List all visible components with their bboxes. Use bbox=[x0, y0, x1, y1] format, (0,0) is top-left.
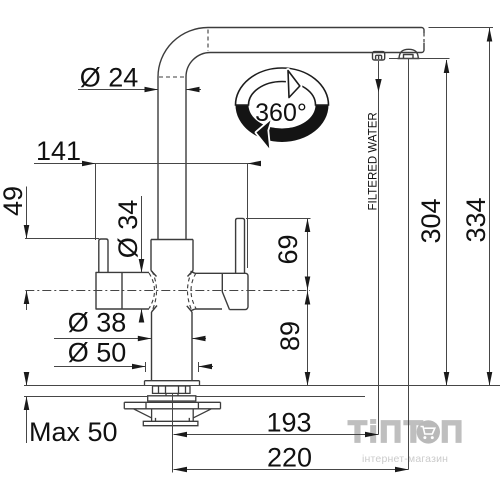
svg-text:П: П bbox=[441, 414, 463, 449]
ext line 141 right bbox=[247, 164, 249, 269]
filtered water outlet dome bbox=[398, 49, 420, 58]
dim 334 line bbox=[489, 28, 491, 386]
center reference line bbox=[172, 394, 174, 473]
ext line 141 left bbox=[95, 164, 97, 241]
svg-text:193: 193 bbox=[266, 408, 311, 438]
lower cylinder bbox=[152, 409, 194, 422]
right handle body bbox=[195, 273, 248, 309]
ext ticks Ø50 bbox=[146, 362, 199, 372]
dim Ø24 lines bbox=[78, 89, 201, 91]
white rotation arrowhead top-right bbox=[288, 71, 300, 98]
svg-text:Ø 24: Ø 24 bbox=[80, 63, 139, 93]
arrows 220 bbox=[174, 467, 188, 473]
dim 220 line bbox=[174, 469, 409, 471]
svg-text:Ø 38: Ø 38 bbox=[68, 308, 127, 338]
body upper collar bbox=[151, 240, 193, 271]
dim 304 line bbox=[446, 60, 448, 386]
handle axis centerline bbox=[25, 290, 310, 292]
ext line 49 top bbox=[25, 238, 99, 240]
mounting base bbox=[124, 381, 220, 426]
svg-text:FILTERED WATER: FILTERED WATER bbox=[368, 112, 380, 210]
arrows 193 bbox=[174, 432, 188, 438]
body lower column bbox=[152, 312, 193, 381]
svg-text:69: 69 bbox=[273, 234, 303, 264]
arrows Ø38 bbox=[138, 336, 152, 342]
svg-text:334: 334 bbox=[461, 197, 491, 242]
dim 69 line bbox=[307, 219, 309, 291]
spout riser pipe bbox=[158, 77, 186, 240]
svg-text:360°: 360° bbox=[255, 99, 307, 127]
ring lower black band bbox=[236, 105, 329, 142]
faucet body tee and handles bbox=[96, 218, 248, 380]
arrows 89 bbox=[305, 291, 311, 305]
svg-text:інтернет-магазин: інтернет-магазин bbox=[362, 453, 448, 465]
ext line 304 top bbox=[389, 58, 450, 60]
svg-text:220: 220 bbox=[267, 443, 312, 473]
shank bbox=[166, 393, 178, 395]
dim 89 line bbox=[307, 291, 309, 386]
svg-text:49: 49 bbox=[0, 186, 28, 216]
watermark TIPTOP logo bbox=[348, 414, 463, 465]
dim 141 line bbox=[34, 163, 260, 165]
arrows Max50 bbox=[24, 372, 30, 386]
tee waist dashed intersection curves bbox=[152, 271, 157, 311]
tee corner chamfers bbox=[151, 271, 193, 313]
arrows 49 bbox=[24, 225, 30, 239]
arrows Ø24 bbox=[145, 87, 159, 93]
arrows 141 bbox=[82, 161, 96, 167]
dim Ø38 line bbox=[54, 338, 206, 340]
dim Ø34 line bbox=[141, 196, 143, 322]
main outlet (aerator) bbox=[373, 52, 385, 60]
ext line 69 top bbox=[246, 218, 311, 220]
bottom ring bbox=[143, 421, 198, 425]
left handle lever bbox=[99, 239, 108, 272]
tangent dashes bbox=[207, 30, 209, 52]
dim 193 line bbox=[174, 434, 379, 436]
left handle body bbox=[96, 272, 149, 309]
nut stack row 1 bbox=[153, 386, 191, 393]
main outlet reference line bbox=[378, 61, 380, 435]
escutcheon flange bbox=[145, 381, 200, 386]
svg-text:141: 141 bbox=[36, 136, 81, 166]
countertop underside line bbox=[24, 396, 365, 398]
right handle lever bbox=[236, 218, 245, 273]
spout horizontal arm bbox=[208, 28, 424, 53]
filtered outlet reference line bbox=[408, 59, 410, 470]
black ccw arrowhead bottom-left bbox=[257, 121, 271, 149]
faucet outline bbox=[158, 28, 424, 241]
svg-text:89: 89 bbox=[275, 321, 305, 351]
fork bracket plate bbox=[124, 402, 220, 409]
arrow filtered water flow bbox=[375, 79, 381, 92]
ext line 334 top bbox=[429, 27, 494, 29]
svg-text:Ø 50: Ø 50 bbox=[68, 338, 127, 368]
360 degree rotation symbol bbox=[236, 68, 329, 148]
svg-text:ТіПТ: ТіПТ bbox=[348, 414, 425, 449]
spout curve bbox=[158, 28, 211, 78]
nut stack row 2 bbox=[148, 396, 196, 401]
countertop surface line bbox=[24, 385, 500, 387]
svg-text:Ø 34: Ø 34 bbox=[113, 200, 143, 259]
arrows Ø50 bbox=[132, 364, 146, 370]
svg-text:Max 50: Max 50 bbox=[29, 417, 118, 447]
dim Max50 line bbox=[26, 373, 28, 443]
arrows 304 bbox=[444, 60, 450, 74]
arrows 69 bbox=[305, 219, 311, 233]
arrows Ø34 bbox=[139, 259, 145, 273]
ring upper white band bbox=[236, 68, 329, 105]
dim Ø50 line bbox=[54, 366, 213, 368]
arrows 334 bbox=[487, 28, 493, 42]
dim 49 line bbox=[26, 187, 28, 311]
svg-text:304: 304 bbox=[416, 198, 446, 243]
